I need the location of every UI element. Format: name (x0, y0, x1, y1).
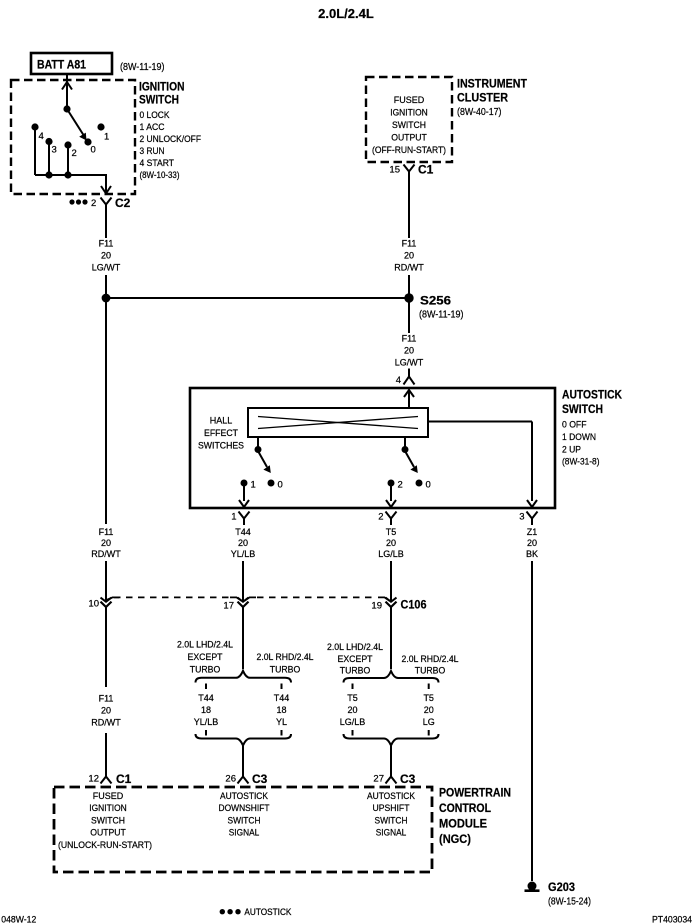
svg-text:1: 1 (104, 132, 109, 143)
junction dot at contact-2 wire (64, 171, 71, 178)
title 2.0L/2.4L (318, 6, 374, 21)
svg-text:4: 4 (396, 375, 401, 386)
svg-text:RD/WT: RD/WT (91, 718, 121, 728)
upshift switch pivot stub (402, 437, 409, 453)
left wire below C106 (105, 607, 107, 687)
connector C2 (69, 196, 130, 210)
svg-text:BATT A81: BATT A81 (37, 58, 86, 72)
svg-text:3 RUN: 3 RUN (140, 146, 165, 156)
svg-text:C3: C3 (400, 772, 416, 786)
wire T44 YL/LB label (231, 527, 256, 559)
svg-text:27: 27 (373, 774, 384, 785)
svg-text:15: 15 (389, 165, 400, 176)
sheet number 048W-12 (1, 915, 36, 924)
svg-text:AUTOSTICK: AUTOSTICK (367, 791, 415, 801)
svg-text:17: 17 (223, 601, 234, 612)
branch label 2.0L LHD/2.4L EXCEPT TURBO (left group) (177, 640, 233, 675)
svg-text:048W-12: 048W-12 (1, 915, 36, 924)
svg-text:20: 20 (238, 538, 248, 548)
svg-text:(8W-15-24): (8W-15-24) (548, 897, 591, 908)
svg-text:18: 18 (276, 705, 286, 715)
connector C1 pin 12 (PCM) (88, 772, 131, 786)
svg-text:YL/LB: YL/LB (194, 717, 219, 727)
top brace (right group) (344, 671, 439, 683)
svg-text:YL/LB: YL/LB (231, 549, 256, 559)
svg-text:T5: T5 (423, 693, 434, 703)
downshift contact 1 (241, 480, 256, 491)
connector C3 pin 26 (PCM) (225, 772, 267, 786)
branch label 2.0L RHD/2.4L TURBO (right group) (402, 654, 459, 676)
svg-text:LG/WT: LG/WT (92, 263, 121, 273)
left wire to PCM pin 12 (105, 733, 107, 778)
svg-text:F11: F11 (402, 239, 417, 249)
ignition wiper pivot junction (63, 105, 70, 112)
upshift contact 0 (416, 480, 431, 491)
autostick switch label (562, 388, 622, 467)
svg-text:2: 2 (398, 480, 403, 491)
svg-text:HALL: HALL (210, 416, 233, 426)
svg-text:10: 10 (88, 599, 99, 610)
connector pin 2 (autostick) (378, 512, 396, 526)
svg-text:TURBO: TURBO (415, 666, 446, 676)
connector C106 dashed bus (114, 596, 377, 598)
svg-text:20: 20 (424, 705, 434, 715)
svg-text:F11: F11 (99, 527, 114, 537)
svg-text:C106: C106 (401, 598, 427, 612)
wire from contact 4 down (34, 127, 36, 175)
svg-text:3: 3 (52, 145, 57, 156)
svg-text:(OFF-RUN-START): (OFF-RUN-START) (372, 145, 446, 155)
arrowhead up into hall-effect block (404, 390, 414, 408)
branch tick marks (left group, upper) (206, 684, 282, 690)
C106 cavity 10 (88, 597, 119, 609)
svg-text:T44: T44 (235, 527, 251, 537)
svg-text:(8W-11-19): (8W-11-19) (120, 62, 165, 73)
branch tick marks (left group, lower) (206, 730, 282, 736)
splice run wire to S256 (106, 297, 409, 299)
battery feed BATT A81 (31, 53, 165, 74)
wire Z1 BK label (526, 527, 538, 559)
svg-text:(8W-11-19): (8W-11-19) (419, 310, 464, 321)
legend: autostick marker (220, 907, 292, 917)
T5 wire segment to C106 (390, 561, 392, 601)
splice S256 (404, 293, 463, 320)
svg-text:1 DOWN: 1 DOWN (562, 432, 596, 442)
connector C3 pin 27 (PCM) (373, 772, 415, 786)
svg-text:2.0L LHD/2.4L: 2.0L LHD/2.4L (327, 642, 383, 652)
wire contact2 to pin 2 (386, 483, 396, 507)
C106 cavity 19 (371, 597, 426, 611)
svg-text:TURBO: TURBO (270, 665, 301, 675)
connector pin 3 (autostick) (519, 512, 537, 526)
wire F11 RD/WT (cluster to S256) (394, 172, 424, 299)
svg-text:F11: F11 (402, 334, 417, 344)
bottom brace (right group) (344, 734, 439, 746)
autostick switch box (190, 388, 555, 508)
hall effect switches label (198, 416, 244, 451)
wire contact1 to pin 1 (239, 483, 249, 507)
svg-text:C3: C3 (252, 772, 268, 786)
svg-text:1 ACC: 1 ACC (140, 122, 165, 132)
svg-text:EXCEPT: EXCEPT (188, 652, 223, 662)
svg-text:AUTOSTICK: AUTOSTICK (562, 388, 622, 402)
svg-text:CLUSTER: CLUSTER (457, 91, 508, 105)
downshift switch pivot stub (255, 437, 262, 453)
svg-text:1: 1 (231, 512, 236, 523)
svg-text:SIGNAL: SIGNAL (376, 828, 407, 838)
T44 wire below C106 (242, 607, 244, 669)
svg-text:(8W-31-8): (8W-31-8) (562, 457, 600, 467)
downshift contact 0 (268, 480, 283, 491)
svg-text:T5: T5 (386, 527, 397, 537)
svg-text:2.0L LHD/2.4L: 2.0L LHD/2.4L (177, 640, 233, 650)
svg-text:BK: BK (526, 549, 538, 559)
svg-text:2.0L RHD/2.4L: 2.0L RHD/2.4L (257, 652, 314, 662)
svg-text:EFFECT: EFFECT (204, 428, 238, 438)
svg-text:C1: C1 (116, 772, 132, 786)
wire F11 LG/WT (C2 to splice) (92, 205, 121, 299)
arrowhead up toward BATT A81 (62, 82, 72, 90)
svg-text:20: 20 (404, 251, 414, 261)
instrument cluster inner text (372, 95, 446, 155)
svg-text:LG/LB: LG/LB (340, 717, 366, 727)
wire F11 RD/WT label (left, below C106) (91, 694, 121, 728)
svg-text:20: 20 (101, 251, 111, 261)
svg-text:C1: C1 (418, 163, 434, 177)
svg-text:YL: YL (276, 717, 287, 727)
svg-text:2: 2 (91, 198, 96, 209)
svg-text:2 UNLOCK/OFF: 2 UNLOCK/OFF (140, 134, 202, 144)
PCM label (439, 786, 511, 847)
svg-text:2: 2 (72, 148, 77, 159)
wire hall block to pin 3 (428, 422, 537, 508)
svg-text:0: 0 (91, 145, 96, 156)
svg-text:CONTROL: CONTROL (439, 801, 491, 815)
svg-text:T44: T44 (198, 693, 214, 703)
left wire segment to C106 (105, 298, 107, 601)
svg-text:0: 0 (278, 480, 283, 491)
svg-text:20: 20 (527, 538, 537, 548)
svg-text:POWERTRAIN: POWERTRAIN (439, 786, 511, 800)
wire T5 LG/LB label (378, 527, 404, 559)
powertrain control module box (dashed) (54, 787, 432, 872)
T44 wire segment to C106 (242, 561, 244, 601)
svg-text:4 START: 4 START (140, 158, 175, 168)
svg-text:T5: T5 (347, 693, 358, 703)
wire from BATT A81 into ignition switch (66, 74, 68, 109)
svg-text:SWITCHES: SWITCHES (198, 441, 244, 451)
wire to PCM pin 26 (242, 746, 244, 778)
ignition switch box (dashed) (11, 80, 135, 194)
svg-text:FUSED: FUSED (93, 791, 124, 801)
svg-text:OUTPUT: OUTPUT (391, 133, 427, 143)
svg-text:T44: T44 (274, 693, 290, 703)
svg-text:(UNLOCK-RUN-START): (UNLOCK-RUN-START) (58, 840, 152, 850)
svg-text:0: 0 (426, 480, 431, 491)
svg-text:AUTOSTICK: AUTOSTICK (244, 907, 291, 917)
svg-text:20: 20 (404, 346, 414, 356)
svg-text:(NGC): (NGC) (439, 832, 471, 846)
ignition contact 2 (64, 141, 76, 159)
svg-text:20: 20 (101, 706, 111, 716)
svg-text:SWITCH: SWITCH (392, 120, 426, 130)
ignition contact 3 (45, 138, 56, 156)
svg-text:26: 26 (225, 774, 236, 785)
branch label 2.0L RHD/2.4L TURBO (left group) (257, 652, 314, 675)
Z1 wire segment down to ground (531, 561, 533, 881)
svg-text:18: 18 (201, 705, 211, 715)
svg-text:4: 4 (39, 131, 44, 142)
svg-text:12: 12 (88, 774, 99, 785)
svg-text:19: 19 (371, 601, 382, 612)
ground G203 (525, 880, 592, 908)
svg-text:IGNITION: IGNITION (139, 80, 185, 94)
svg-text:RD/WT: RD/WT (91, 549, 121, 559)
svg-text:EXCEPT: EXCEPT (338, 654, 373, 664)
svg-text:LG/LB: LG/LB (378, 549, 404, 559)
svg-text:0 LOCK: 0 LOCK (140, 110, 170, 120)
C106 cavity 17 (223, 597, 256, 611)
upshift contact 2 (388, 480, 403, 491)
svg-text:0 OFF: 0 OFF (562, 420, 587, 430)
PCM input: fused ignition switch output (58, 791, 152, 850)
PCM input: autostick upshift switch signal (367, 791, 415, 838)
wire F11 RD/WT label (left, above C106) (91, 527, 121, 559)
svg-text:TURBO: TURBO (190, 665, 221, 675)
svg-text:20: 20 (347, 705, 357, 715)
wire T5 20 LG/LB (branch) (340, 693, 366, 727)
svg-text:(8W-40-17): (8W-40-17) (457, 107, 502, 118)
svg-text:S256: S256 (420, 294, 451, 308)
svg-text:SWITCH: SWITCH (91, 815, 125, 825)
branch tick marks (right group, upper) (353, 684, 429, 690)
top brace (left group) (196, 671, 292, 683)
part number PT403034 (652, 915, 692, 924)
svg-text:IGNITION: IGNITION (89, 803, 127, 813)
svg-text:MODULE: MODULE (439, 817, 487, 831)
svg-text:(8W-10-33): (8W-10-33) (140, 170, 180, 180)
wire T44 18 YL (branch) (274, 693, 290, 727)
svg-text:1: 1 (251, 480, 256, 491)
downshift switch wiper (258, 451, 271, 473)
svg-text:20: 20 (386, 538, 396, 548)
connector pin 4 of autostick switch (396, 375, 415, 386)
wire T5 20 LG (branch) (423, 693, 435, 727)
svg-text:PT403034: PT403034 (652, 915, 692, 924)
svg-text:SWITCH: SWITCH (228, 815, 261, 825)
svg-text:LG/WT: LG/WT (395, 358, 424, 368)
junction dot left of splice run (102, 294, 111, 303)
ignition switch label text (139, 80, 201, 181)
branch tick marks (right group, lower) (353, 730, 429, 736)
svg-text:G203: G203 (548, 880, 575, 894)
arrowhead into connector C2 (101, 186, 111, 194)
branch label 2.0L LHD/2.4L EXCEPT TURBO (right group) (327, 642, 383, 676)
wire to PCM pin 27 (390, 746, 392, 778)
ignition contact 1 (97, 123, 109, 142)
instrument cluster label (457, 77, 528, 119)
wire from contact 2 down (67, 145, 69, 175)
bottom brace (left group) (196, 734, 292, 746)
svg-text:F11: F11 (99, 694, 114, 704)
svg-text:2.0L RHD/2.4L: 2.0L RHD/2.4L (402, 654, 459, 664)
hall effect block (crossed box) (248, 408, 428, 437)
wire from contact 3 down (48, 142, 50, 176)
svg-text:C2: C2 (115, 196, 131, 210)
svg-text:INSTRUMENT: INSTRUMENT (457, 77, 528, 91)
svg-text:TURBO: TURBO (340, 666, 371, 676)
svg-text:F11: F11 (99, 239, 114, 249)
upshift switch wiper (405, 451, 418, 473)
svg-text:OUTPUT: OUTPUT (90, 828, 126, 838)
svg-text:IGNITION: IGNITION (390, 108, 428, 118)
svg-text:SWITCH: SWITCH (375, 815, 408, 825)
svg-text:2: 2 (378, 512, 383, 523)
svg-text:SWITCH: SWITCH (139, 93, 179, 107)
bus wire inside ignition switch (35, 175, 106, 192)
wire F11 LG/WT (S256 to autostick switch) (395, 298, 424, 377)
ignition contact 4 (31, 123, 43, 142)
connector pin 1 (autostick) (231, 512, 249, 526)
ignition wiper arm (to position 0) (67, 109, 87, 141)
svg-text:LG: LG (423, 717, 435, 727)
svg-text:DOWNSHIFT: DOWNSHIFT (219, 803, 270, 813)
svg-text:2 UP: 2 UP (562, 444, 581, 454)
svg-text:RD/WT: RD/WT (394, 263, 424, 273)
ignition contact 0 (84, 138, 95, 155)
instrument cluster box (dashed) (366, 77, 452, 162)
svg-text:AUTOSTICK: AUTOSTICK (220, 791, 268, 801)
T5 wire below C106 (390, 607, 392, 669)
svg-text:UPSHIFT: UPSHIFT (373, 803, 410, 813)
wire T44 18 YL/LB (branch) (194, 693, 219, 727)
svg-text:3: 3 (519, 512, 524, 523)
svg-text:2.0L/2.4L: 2.0L/2.4L (318, 6, 374, 21)
svg-text:SWITCH: SWITCH (562, 402, 603, 416)
svg-text:Z1: Z1 (527, 527, 538, 537)
junction dot at contact-3 wire (45, 171, 52, 178)
svg-text:FUSED: FUSED (394, 95, 425, 105)
svg-text:SIGNAL: SIGNAL (229, 828, 260, 838)
PCM input: autostick downshift switch signal (219, 791, 270, 838)
connector C1 pin 15 (389, 163, 433, 177)
svg-text:20: 20 (101, 538, 111, 548)
